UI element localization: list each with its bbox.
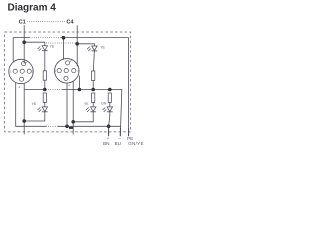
svg-text:1: 1 (10, 70, 12, 74)
resistor R4 lower right (92, 93, 95, 102)
junction rail B' / C4 wire (75, 42, 79, 46)
LED D2 YE upper right (87, 46, 97, 51)
wire D4 return to C4 pin3 line (73, 111, 93, 121)
junction rail C / C4 stub (78, 88, 82, 92)
dark dash on bottom border (69, 127, 73, 129)
wire connector C4 bottom drop to 0V rail (66, 83, 68, 126)
wire D2 to R2 (93, 51, 94, 72)
wire R5 to D5 (109, 102, 111, 107)
resistor R2 (92, 71, 95, 80)
connector C1 pin 5 middle (20, 69, 24, 73)
cable labels (103, 136, 144, 146)
wire exit stubs emphasis (109, 128, 129, 136)
junction rail A / C4 drop (62, 36, 66, 40)
connector C4 pin labels (54, 59, 79, 88)
dotted continuation line between C1 and C4 (27, 20, 66, 22)
svg-text:2: 2 (70, 59, 72, 63)
svg-text:1: 1 (54, 69, 56, 73)
wire R1 to rail C (44, 80, 46, 89)
svg-text:YE: YE (84, 102, 89, 106)
svg-text:GN/YE: GN/YE (128, 141, 144, 146)
wire 0V rail right (58, 125, 121, 127)
junction D3 return / pin4 line (22, 119, 26, 123)
svg-text:4: 4 (68, 84, 70, 88)
LED D5 GN power (102, 107, 112, 112)
wire rail A dotted continuation (30, 37, 62, 39)
svg-text:BU: BU (115, 141, 122, 146)
connector C1 pin labels (10, 60, 34, 90)
wire C1 terminal drop (23, 25, 25, 63)
connector C4 pin 2 top (66, 61, 70, 65)
wire rail A left segment (13, 38, 29, 62)
svg-text:3: 3 (77, 69, 79, 73)
connector C1 pin 2 top (22, 62, 26, 66)
svg-text:4: 4 (19, 85, 21, 89)
wire connector C1 pin1 drop to 0V rail (16, 83, 46, 127)
svg-text:YE: YE (100, 45, 105, 49)
connector C4 pin 5 middle (64, 69, 68, 73)
svg-text:2: 2 (26, 60, 28, 64)
wire connector C1 pin4 drop (23, 83, 25, 134)
wire rail B dotted continuation (46, 42, 76, 44)
resistor R3 lower left (43, 93, 46, 102)
svg-text:C1: C1 (19, 19, 26, 25)
connector C1 pin 1 left (13, 69, 17, 73)
wire rail B right (77, 44, 94, 46)
wire D1 to R1 (44, 50, 46, 71)
svg-text:YE: YE (32, 102, 37, 106)
connector C1 pin 4 bottom (20, 77, 24, 81)
wire R2 to rail C (92, 80, 94, 89)
connector C4 pin 4 bottom (64, 76, 68, 80)
connector C1 pin 3 right (27, 69, 31, 73)
wire 0V rail dotted continuation (46, 125, 58, 127)
connector C4 pin 3 right (72, 69, 76, 73)
LED D3 YE lower left (37, 107, 47, 112)
wire R4 to D4 (92, 102, 94, 107)
wire stub connector C4 to rail C (78, 76, 80, 90)
svg-text:GN: GN (101, 102, 107, 106)
wire D5 to 0V rail and cable plus (109, 112, 110, 137)
junction rail B / C1 wire (22, 40, 26, 44)
connector C4 body (55, 59, 79, 83)
junction 0V rail / GN branch (107, 125, 111, 129)
junction 0V rail / C4 bottom drop (65, 125, 69, 129)
junction rail C / chain 2 (91, 88, 95, 92)
wire D3 return to pin4 line (24, 111, 45, 121)
connector C4 pin 1 left (57, 69, 61, 73)
LED D1 YE upper left (37, 46, 47, 51)
junction rail C / chain 1 (43, 88, 47, 92)
svg-text:BN: BN (103, 141, 110, 146)
wire connector C4 pin3 drop through border (72, 81, 74, 134)
wire rail C right + drop to cable minus (62, 90, 122, 137)
LED D4 YE lower right (86, 107, 96, 112)
svg-text:Diagram 4: Diagram 4 (8, 3, 57, 14)
svg-text:C4: C4 (66, 19, 74, 25)
svg-text:3: 3 (32, 70, 34, 74)
wire rail B left (24, 42, 45, 46)
junction D4 return / pin3 line (71, 120, 75, 124)
wire rail C dotted continuation (46, 89, 62, 91)
connector C1 body (9, 59, 33, 83)
wire rail A drop to connector C4 (63, 38, 65, 60)
wire C4 terminal drop (76, 25, 78, 66)
svg-text:YE: YE (50, 45, 55, 49)
wire rail C left (24, 89, 46, 91)
junction rail C / GN branch (108, 88, 112, 92)
wire R3 to D3 (44, 102, 46, 107)
resistor R1 (43, 71, 46, 80)
wire rail A right segment (61, 37, 129, 39)
resistor R5 GN branch (108, 93, 111, 102)
junction dots (22, 36, 111, 129)
enclosure dashed box (5, 32, 131, 132)
wire right side PE drop to cable (128, 38, 130, 137)
